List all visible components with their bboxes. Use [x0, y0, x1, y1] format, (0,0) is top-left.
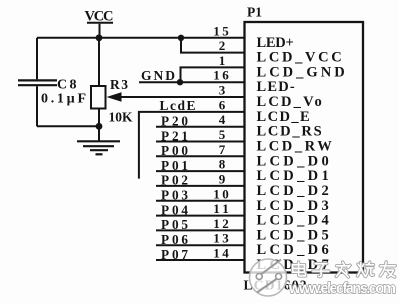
pin numbers column: [213, 23, 229, 260]
wire row9: [156, 155, 244, 157]
wire row2 branch: [181, 38, 244, 53]
svg-text:LCD_D1: LCD_D1: [257, 168, 330, 184]
svg-text:11: 11: [213, 201, 229, 216]
svg-text:3: 3: [219, 83, 226, 98]
watermark logo circle: [250, 259, 287, 296]
connector P1: [245, 5, 364, 273]
power VCC: [85, 8, 114, 37]
wire VCC rail row1: [37, 37, 244, 39]
svg-text:P1: P1: [247, 5, 262, 20]
node junction at row1/row2 branch: [178, 35, 184, 41]
svg-text:0.1µF: 0.1µF: [41, 92, 86, 107]
svg-text:www.elecfans.com: www.elecfans.com: [288, 280, 396, 297]
wire row7: [156, 126, 244, 128]
svg-text:7: 7: [219, 142, 226, 157]
svg-text:8: 8: [219, 157, 226, 172]
capacitor C8: [18, 38, 86, 127]
ground: [77, 141, 120, 154]
svg-text:9: 9: [219, 171, 226, 186]
svg-text:16: 16: [213, 68, 229, 83]
svg-text:LCD_E: LCD_E: [257, 109, 311, 125]
svg-text:R3: R3: [110, 77, 128, 92]
svg-text:10: 10: [213, 186, 229, 201]
node junction at VCC stub: [96, 34, 103, 41]
svg-text:LCD_D3: LCD_D3: [257, 198, 330, 214]
svg-text:LCD_D6: LCD_D6: [257, 242, 330, 258]
watermark chinese text dian-zi-fa-shao-you: [293, 262, 396, 277]
svg-text:14: 14: [213, 246, 229, 261]
wire row6 LcdE with bracket: [139, 112, 244, 179]
wire row8: [156, 141, 244, 143]
svg-text:LCD_RS: LCD_RS: [257, 124, 323, 140]
wire row4 GND rail: [139, 81, 244, 83]
wire row3 to GND: [181, 67, 245, 82]
wire row5 wiper to LCD_Vo with arrow: [121, 96, 244, 98]
svg-text:2: 2: [219, 38, 226, 53]
svg-text:6: 6: [219, 97, 226, 112]
svg-text:LED-: LED-: [257, 79, 296, 95]
pin names inside connector: [257, 35, 346, 273]
svg-text:1: 1: [219, 53, 226, 68]
wire row16: [156, 259, 244, 261]
wire row12: [156, 200, 244, 202]
resistor R3 potentiometer: [91, 38, 133, 141]
svg-text:5: 5: [219, 127, 226, 142]
wire row15: [156, 244, 244, 246]
node junction GND: [177, 79, 183, 85]
svg-text:LCD_D2: LCD_D2: [257, 183, 330, 199]
svg-text:13: 13: [213, 231, 229, 246]
svg-text:15: 15: [213, 23, 229, 38]
svg-text:LCD_D5: LCD_D5: [257, 227, 330, 243]
wire bottom rail: [37, 125, 99, 127]
wire row13: [156, 215, 244, 217]
svg-text:LCD_Vo: LCD_Vo: [257, 94, 323, 110]
svg-text:LCD_VCC: LCD_VCC: [257, 50, 343, 66]
wire row10: [156, 170, 244, 172]
svg-text:10K: 10K: [109, 110, 133, 125]
svg-text:4: 4: [219, 112, 226, 127]
svg-text:GND: GND: [141, 68, 175, 83]
wire row11: [156, 185, 244, 187]
svg-text:C8: C8: [57, 77, 77, 92]
node junction bottom rail: [96, 123, 103, 130]
svg-text:LED+: LED+: [257, 35, 295, 51]
svg-text:LCD_GND: LCD_GND: [257, 64, 346, 80]
svg-text:12: 12: [213, 216, 229, 231]
svg-text:LCD_RW: LCD_RW: [257, 139, 333, 155]
svg-text:LCD_D0: LCD_D0: [257, 153, 330, 169]
wire row14: [156, 229, 244, 231]
svg-text:LCD_D4: LCD_D4: [257, 213, 330, 229]
